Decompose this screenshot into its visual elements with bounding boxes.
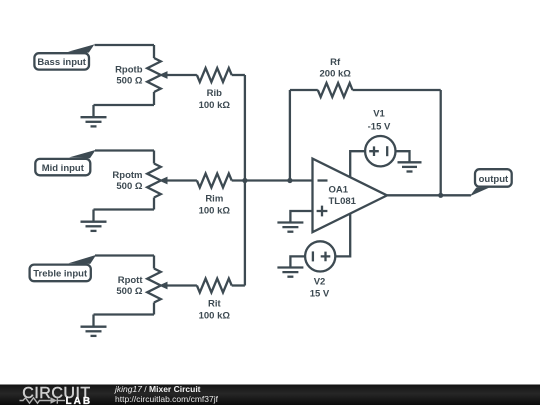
ground V2 <box>277 268 303 277</box>
node junction output / feedback <box>438 193 443 198</box>
wire mid pot bottom to ground <box>94 208 155 210</box>
potentiometer Rpotm 500 ohm <box>112 151 167 210</box>
wire op-amp V+ pin to V1 <box>350 151 365 177</box>
svg-text:500 Ω: 500 Ω <box>116 75 142 86</box>
svg-text:jking17 / Mixer Circuit: jking17 / Mixer Circuit <box>114 384 201 394</box>
svg-text:100 kΩ: 100 kΩ <box>199 206 231 217</box>
svg-text:15 V: 15 V <box>310 289 330 300</box>
wire treble pot bottom to ground <box>94 313 155 315</box>
svg-text:V2: V2 <box>314 277 326 288</box>
svg-text:-15 V: -15 V <box>368 122 391 133</box>
wire Rib to rail <box>232 74 245 76</box>
svg-text:500 Ω: 500 Ω <box>116 181 142 192</box>
node junction summing rail / inverting bus <box>242 178 247 183</box>
svg-text:Rit: Rit <box>208 299 222 310</box>
op-amp OA1 TL081 <box>313 159 388 233</box>
resistor Rib 100k <box>197 68 232 111</box>
footer bar <box>0 385 540 405</box>
ground bass <box>81 105 107 126</box>
wire op-amp output <box>387 194 471 196</box>
svg-text:Rib: Rib <box>207 88 223 99</box>
wire summing rail vertical <box>244 75 246 286</box>
wire treble flag to pot <box>95 254 154 256</box>
resistor Rf 200k <box>290 57 441 97</box>
svg-text:Mid input: Mid input <box>42 163 85 174</box>
resistor Rit 100k <box>197 279 232 322</box>
potentiometer Rpott 500 ohm <box>116 256 167 315</box>
svg-text:Treble input: Treble input <box>33 269 88 280</box>
wire Rit to rail <box>232 284 245 286</box>
resistor Rim 100k <box>197 174 232 217</box>
svg-text:100 kΩ: 100 kΩ <box>199 100 231 111</box>
svg-text:V1: V1 <box>373 109 385 120</box>
potentiometer Rpotb 500 ohm <box>115 45 167 105</box>
wire treble wiper <box>166 284 197 286</box>
wire V2 to ground <box>290 256 305 267</box>
svg-text:http://circuitlab.com/cmf37jf: http://circuitlab.com/cmf37jf <box>115 394 219 404</box>
wire mid flag to pot <box>95 149 154 151</box>
flag Treble input <box>30 255 97 281</box>
wire bass pot bottom to ground <box>94 104 155 106</box>
svg-text:output: output <box>479 174 509 185</box>
svg-text:Rpott: Rpott <box>118 275 144 286</box>
svg-text:Rf: Rf <box>330 57 341 68</box>
wire feedback left rail <box>289 90 291 181</box>
svg-text:OA1: OA1 <box>329 185 349 196</box>
svg-text:Bass input: Bass input <box>37 57 86 68</box>
svg-text:500 Ω: 500 Ω <box>116 286 142 297</box>
node junction feedback / inverting bus <box>287 178 292 183</box>
svg-text:Rpotb: Rpotb <box>115 64 143 75</box>
wire non-inverting input to ground <box>290 211 312 223</box>
wire bass flag to pot <box>95 44 155 46</box>
ground V1 <box>398 162 422 171</box>
voltage source V1 -15V <box>365 109 395 167</box>
wire op-amp V- pin to V2 <box>335 214 350 257</box>
svg-text:Rpotm: Rpotm <box>112 170 142 181</box>
wire V1 to ground <box>396 151 410 162</box>
ground treble <box>81 315 107 336</box>
ground op-amp non-inverting <box>277 223 303 232</box>
svg-text:Rim: Rim <box>205 194 223 205</box>
wire mid wiper <box>166 179 197 181</box>
flag Bass input <box>34 44 94 69</box>
flag output <box>470 169 512 196</box>
ground mid <box>81 210 107 231</box>
svg-text:200 kΩ: 200 kΩ <box>320 69 352 80</box>
svg-text:TL081: TL081 <box>329 196 357 207</box>
wire feedback right rail <box>440 90 442 195</box>
logo schematic glyph <box>20 397 66 403</box>
wire Rim to op-amp inverting input <box>232 179 313 181</box>
flag Mid input <box>35 150 95 175</box>
wire bass wiper <box>166 74 197 76</box>
svg-text:100 kΩ: 100 kΩ <box>199 311 231 322</box>
voltage source V2 15V <box>305 241 335 299</box>
svg-text:LAB: LAB <box>66 396 93 405</box>
